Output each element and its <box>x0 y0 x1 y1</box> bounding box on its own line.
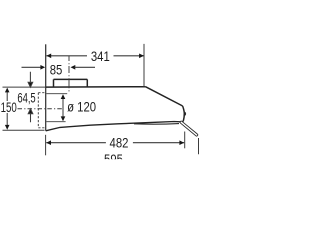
dim 85 line left part <box>22 66 42 68</box>
dim 85 left arrow <box>40 65 45 70</box>
dim o120 arrow shaft <box>62 96 64 120</box>
duct collar top <box>54 78 88 80</box>
dim 64,5 bottom arrow <box>28 109 33 122</box>
dim o120 bottom arrow <box>61 116 66 121</box>
front switch bump <box>184 112 185 115</box>
dim 482 line <box>46 142 184 144</box>
dim 482 left extension line <box>45 135 47 156</box>
dim 150 top arrow <box>5 88 10 93</box>
rear spigot hidden dashed top <box>38 92 45 94</box>
dim 341 right arrow <box>139 54 144 59</box>
dim 150 line <box>6 92 8 127</box>
dim o120 top reference line <box>46 93 67 95</box>
dim 150 bottom arrow <box>5 125 10 130</box>
dim o120 bottom reference line <box>46 121 65 123</box>
dim 85 right arrow <box>71 65 76 70</box>
dim 482 right arrow <box>179 140 184 145</box>
svg-text:150: 150 <box>1 101 18 116</box>
duct collar right edge <box>86 79 88 87</box>
duct collar left edge <box>53 79 55 87</box>
dim 341 line <box>46 55 143 57</box>
svg-text:ø 120: ø 120 <box>67 99 96 114</box>
svg-text:341: 341 <box>91 49 110 64</box>
handle rod <box>181 122 196 135</box>
hood body rear edge <box>45 44 47 130</box>
dim 482 left arrow <box>46 140 51 145</box>
dim o120 top arrow <box>61 94 66 99</box>
hood top edge <box>46 86 146 88</box>
dim 85 line right part <box>75 66 96 68</box>
visor lip bottom <box>134 123 179 126</box>
dim 595 right extension line <box>198 138 200 154</box>
dim 341 right extension line <box>143 44 145 87</box>
outlet centerline dash-dot horizontal <box>18 108 62 110</box>
hood bottom edge <box>46 122 181 131</box>
rear spigot hidden dashed bottom <box>38 127 45 129</box>
dim 150 top extension line <box>3 86 46 88</box>
svg-text:64,5: 64,5 <box>17 91 35 106</box>
label 595 cropped <box>104 152 123 167</box>
hood top slope to front <box>146 87 185 123</box>
collar centerline dash-dot <box>68 56 70 91</box>
svg-text:85: 85 <box>50 62 63 77</box>
svg-text:482: 482 <box>110 136 129 151</box>
dim 482 right extension line <box>184 132 186 149</box>
dim 64,5 top arrow <box>28 72 33 87</box>
dim 150 bottom extension line <box>3 129 45 131</box>
rear spigot hidden dashed left edge <box>37 93 39 128</box>
dim 341 left arrow <box>46 54 51 59</box>
